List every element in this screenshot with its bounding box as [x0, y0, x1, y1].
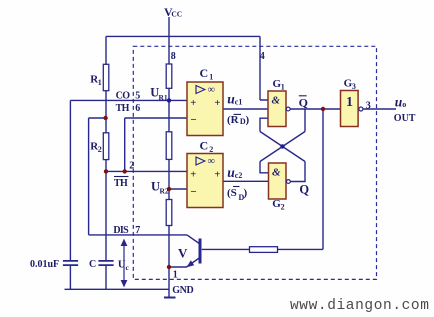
svg-text:1: 1	[346, 95, 353, 110]
svg-text:Q: Q	[299, 183, 309, 197]
svg-text:): )	[246, 114, 250, 126]
svg-text:+: +	[190, 169, 196, 180]
svg-text:1: 1	[209, 72, 213, 81]
svg-text:CC: CC	[171, 10, 182, 19]
svg-text:5: 5	[135, 91, 140, 102]
svg-text:+: +	[214, 98, 220, 109]
svg-text:TH: TH	[114, 178, 128, 189]
svg-text:&: &	[272, 167, 281, 179]
svg-text:2: 2	[129, 161, 134, 172]
svg-text:∞: ∞	[208, 84, 215, 95]
svg-text:Q: Q	[299, 96, 308, 110]
svg-text:1: 1	[98, 78, 102, 87]
svg-text:∞: ∞	[208, 156, 215, 167]
svg-text:−: −	[190, 114, 196, 126]
svg-text:7: 7	[135, 225, 140, 236]
svg-text:2: 2	[98, 145, 102, 154]
svg-text:C: C	[89, 259, 96, 270]
svg-text:): )	[244, 187, 248, 199]
svg-text:+: +	[214, 169, 220, 180]
svg-text:o: o	[402, 100, 406, 109]
svg-text:R1: R1	[159, 93, 168, 102]
svg-text:1: 1	[281, 82, 285, 91]
svg-text:CO: CO	[116, 91, 131, 102]
svg-text:+: +	[190, 98, 196, 109]
svg-text:TH: TH	[116, 103, 130, 114]
svg-text:6: 6	[135, 103, 140, 114]
svg-text:C: C	[200, 139, 209, 153]
svg-text:(R: (R	[227, 114, 240, 126]
svg-text:OUT: OUT	[394, 113, 416, 124]
svg-text:2: 2	[281, 203, 285, 212]
svg-text:c1: c1	[235, 97, 243, 106]
svg-text:(S: (S	[227, 187, 237, 199]
svg-text:1: 1	[173, 270, 178, 281]
svg-text:3: 3	[352, 82, 356, 91]
svg-text:−: −	[190, 186, 196, 198]
svg-text:c: c	[126, 263, 130, 272]
svg-text:8: 8	[171, 51, 176, 62]
svg-text:C: C	[200, 66, 209, 80]
svg-text:0.01uF: 0.01uF	[30, 259, 59, 270]
svg-text:&: &	[272, 95, 281, 107]
svg-text:DIS: DIS	[113, 225, 129, 236]
svg-text:GND: GND	[172, 285, 193, 296]
svg-text:R2: R2	[160, 187, 169, 196]
svg-text:www.diangon.com: www.diangon.com	[290, 298, 430, 314]
svg-text:4: 4	[260, 51, 265, 62]
svg-text:c2: c2	[235, 171, 243, 180]
svg-text:V: V	[178, 246, 188, 261]
svg-text:3: 3	[366, 101, 371, 112]
svg-text:2: 2	[209, 145, 213, 154]
